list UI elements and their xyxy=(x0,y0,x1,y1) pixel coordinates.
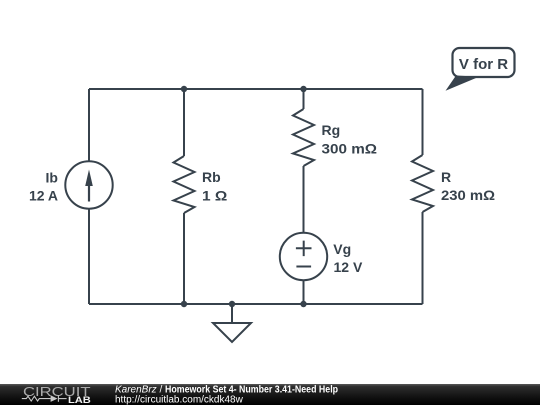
wire R branch upper xyxy=(422,89,424,155)
voltage source Vg circle xyxy=(280,233,327,280)
svg-text:12 V: 12 V xyxy=(334,259,363,275)
svg-text:1 Ω: 1 Ω xyxy=(202,188,227,204)
node dot top Rb xyxy=(181,86,187,92)
footer bar xyxy=(0,384,540,405)
resistor Rb zigzag xyxy=(174,156,195,213)
resistor R zigzag xyxy=(412,155,433,212)
node dot bottom Vg xyxy=(300,301,306,307)
svg-text:LAB: LAB xyxy=(68,395,91,405)
resistor Rg zigzag xyxy=(293,109,314,166)
svg-text:Rg: Rg xyxy=(322,122,341,138)
wire R branch lower xyxy=(422,212,424,304)
wire left branch upper xyxy=(88,89,90,162)
node dot bottom ground xyxy=(229,301,235,307)
wire Rb branch upper xyxy=(183,89,185,156)
wire Rb branch lower xyxy=(183,213,185,304)
svg-text:230 mΩ: 230 mΩ xyxy=(441,187,495,203)
svg-text:V for R: V for R xyxy=(459,56,508,73)
svg-text:Rb: Rb xyxy=(202,169,221,185)
CircuitLab logo xyxy=(22,384,91,405)
svg-text:Ib: Ib xyxy=(46,170,58,186)
wire Rg branch upper xyxy=(303,89,305,109)
svg-text:Vg: Vg xyxy=(333,241,351,257)
wire left branch lower xyxy=(88,209,90,305)
svg-text:http://circuitlab.com/ckdk48w: http://circuitlab.com/ckdk48w xyxy=(115,394,244,405)
annotation bubble V for R xyxy=(446,48,515,91)
current source Ib arrow xyxy=(88,184,90,202)
svg-text:R: R xyxy=(441,169,451,185)
wire bottom net xyxy=(89,303,423,305)
footer credit line xyxy=(115,384,338,405)
wire Rg to Vg xyxy=(303,166,305,233)
wire Vg lower xyxy=(303,280,305,304)
node dot top Rg xyxy=(300,86,306,92)
node dot bottom Rb xyxy=(181,301,187,307)
current source Ib circle xyxy=(65,161,112,208)
wire top net xyxy=(89,88,423,90)
Vg minus sign xyxy=(296,266,311,268)
svg-text:12 A: 12 A xyxy=(29,188,58,204)
svg-text:300 mΩ: 300 mΩ xyxy=(322,140,378,156)
ground symbol triangle xyxy=(213,323,251,342)
Vg plus sign xyxy=(296,241,312,257)
wire ground stub xyxy=(231,304,233,323)
